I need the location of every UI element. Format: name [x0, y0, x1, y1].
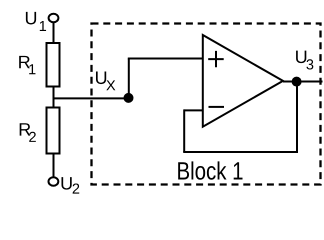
wire divider tap to node UX: [54, 97, 129, 99]
minus input symbol: [209, 106, 225, 108]
terminal U1: [49, 14, 59, 23]
resistor R1: [47, 43, 60, 87]
wire feedback right vertical: [296, 82, 298, 154]
label U1: [26, 12, 46, 31]
label R1: [19, 56, 35, 74]
label R2: [20, 123, 36, 142]
wire R2 to U2: [53, 154, 55, 178]
resistor R2: [47, 108, 60, 154]
wire inverting input: [184, 109, 203, 111]
label U3: [296, 51, 313, 70]
wire node UX up: [128, 59, 130, 99]
block boundary Block 1 (dashed box): [92, 24, 321, 185]
terminal U2: [49, 177, 59, 186]
wire to non-inverting input: [128, 58, 203, 60]
label UX: [96, 72, 115, 91]
wire output: [283, 81, 323, 83]
op-amp A1 triangle: [203, 35, 283, 127]
plus input symbol: [208, 51, 224, 67]
label U2: [61, 177, 79, 193]
wire feedback left vertical: [183, 109, 185, 152]
wire R1 to R2: [53, 87, 55, 108]
wire U1 to R1: [53, 22, 55, 43]
node U3: [292, 77, 302, 87]
node UX: [124, 93, 134, 103]
wire feedback bottom: [183, 151, 297, 153]
label Block 1: [178, 161, 242, 179]
